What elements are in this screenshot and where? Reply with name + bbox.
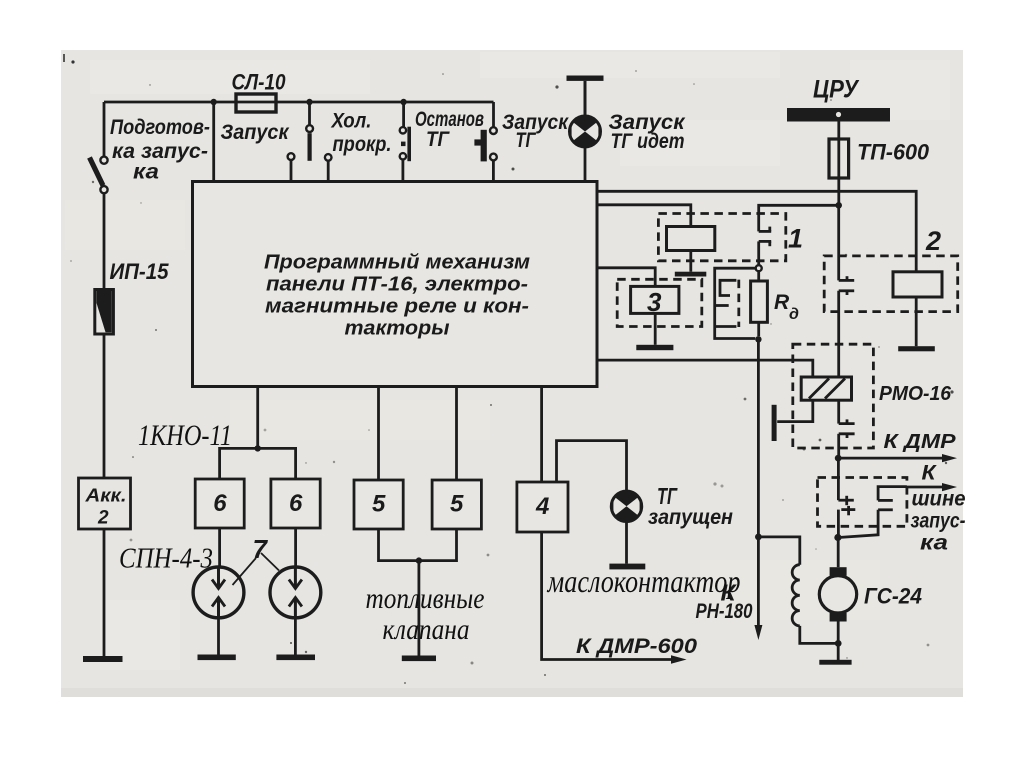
ground coil 2: [898, 346, 935, 351]
dashed box relay 2: [824, 256, 958, 312]
wire box to relay coil 3: [597, 268, 655, 287]
wire coil 2 to ground: [915, 297, 918, 346]
switch S1 Podgotovka zapuska: [90, 157, 108, 194]
relay coil K2: [893, 272, 942, 297]
svg-text:Запуск: Запуск: [221, 121, 290, 144]
wire box to relay 5 left: [377, 387, 380, 481]
svg-text:шине: шине: [912, 488, 966, 511]
relay coil K1: [667, 227, 715, 251]
wire box to RMO-16 coil: [597, 360, 813, 377]
valve 7 left: [193, 567, 244, 618]
wire left column: [103, 193, 106, 290]
wire to battery: [103, 334, 106, 478]
node top wire A: [211, 99, 217, 105]
node starter junction: [834, 534, 841, 541]
wire box to branch 2: [597, 191, 916, 272]
fuse IP-15: [95, 290, 114, 335]
wire lamp feed: [584, 81, 587, 117]
bus bar TsRU: [787, 108, 890, 122]
wire lamp to ground: [625, 522, 628, 564]
labels K shine zapuska: [911, 462, 966, 555]
dashed box relay 1: [658, 214, 785, 261]
wire box 4 to lamp TG: [557, 441, 627, 492]
svg-text:СЛ-10: СЛ-10: [232, 70, 287, 95]
svg-text:6: 6: [213, 490, 227, 517]
label TG zapushchen: [648, 483, 733, 529]
wire coil 1 to ground: [689, 251, 692, 272]
wire left drop to switch: [103, 102, 106, 157]
svg-text:К ДМР: К ДМР: [884, 430, 956, 453]
node top wire C: [400, 99, 406, 105]
node 5 ground junction: [416, 557, 422, 563]
wire down to ground: [417, 561, 420, 656]
label Zapusk TG: [502, 111, 569, 152]
box 6 right: [271, 479, 320, 528]
wire T to both 6 boxes: [220, 448, 296, 479]
svg-text:ТП-600: ТП-600: [857, 140, 930, 165]
wire to field winding: [758, 537, 799, 565]
wire coil 3 to ground: [654, 313, 657, 344]
wire box to valves 6: [256, 387, 259, 449]
node generator ground junction: [835, 640, 842, 647]
dashed box starter contactor: [818, 478, 907, 527]
wire winding to generator bottom: [800, 626, 838, 644]
node valves junction: [255, 445, 261, 451]
wire top supply bus: [104, 101, 494, 104]
program box PT-16: [193, 182, 598, 387]
ground relays 5: [402, 656, 436, 662]
svg-text:запус-: запус-: [911, 510, 966, 533]
main vertical line middle: [837, 291, 840, 377]
svg-text:клапана: клапана: [383, 613, 470, 646]
svg-text:К: К: [922, 462, 938, 485]
fuse SL-10: [236, 94, 276, 112]
ground valve right: [276, 655, 315, 661]
wire valve right to ground: [294, 618, 297, 656]
supply bar for lamp: [567, 76, 604, 81]
ground coil 1: [675, 272, 707, 277]
svg-text:2: 2: [925, 226, 941, 256]
node open circle: [756, 265, 762, 271]
label Podgotovka zapuska: [110, 115, 210, 184]
svg-text:прокр.: прокр.: [333, 133, 392, 156]
label Zapusk TG idet: [609, 111, 686, 153]
arrow K DMR: [838, 454, 957, 462]
wire 6 left to valve: [218, 528, 221, 567]
contact K2 on main line: [839, 276, 855, 295]
svg-text:СПН-4-3: СПН-4-3: [119, 543, 213, 575]
switch S4 Ostanov TG: [474, 102, 496, 182]
contact RMO on main line: [839, 400, 855, 458]
contact branch to starter bus: [838, 487, 907, 538]
label Ostanov TG: [415, 108, 484, 151]
svg-text:R: R: [774, 291, 790, 314]
contactor contact bracket near Rd: [715, 268, 756, 338]
box 4: [517, 482, 568, 532]
wire stub to program box: [212, 102, 215, 182]
svg-text:топливные: топливные: [366, 582, 485, 615]
svg-text:ИП-15: ИП-15: [110, 259, 170, 284]
svg-text:запущен: запущен: [648, 506, 733, 529]
fuse TP-600: [829, 139, 849, 178]
svg-text:1: 1: [788, 224, 803, 254]
arrow K DMR-600: [671, 655, 687, 663]
valve 7 right: [270, 567, 321, 618]
label Rd: [774, 291, 799, 323]
wire 6 right to valve: [294, 528, 297, 567]
box 6 left: [195, 479, 244, 528]
wire box to relay coil 1: [597, 205, 691, 227]
arrow K RN-180 down: [754, 339, 762, 640]
wire box to relay 4: [540, 387, 543, 483]
ground coil 3: [636, 345, 673, 350]
generator GS-24: [819, 538, 856, 644]
svg-text:Запуск: Запуск: [502, 111, 569, 134]
wire to generator ground: [837, 643, 840, 660]
wire bus to fuse: [837, 122, 840, 206]
svg-text:Программный механизм: Программный механизм: [264, 251, 530, 274]
ground valve left: [198, 655, 236, 661]
scanned paper area: [61, 50, 963, 697]
switch S2 Zapusk: [288, 102, 313, 182]
svg-text:5: 5: [450, 491, 464, 518]
resistor Rd: [751, 271, 768, 336]
node top wire B: [306, 99, 312, 105]
svg-text:ТГ: ТГ: [516, 129, 537, 152]
relay coil RMO-16: [801, 377, 851, 400]
wire main line down: [837, 458, 840, 500]
wire battery to ground: [103, 529, 106, 657]
svg-text:маслоконтактор: маслоконтактор: [547, 563, 741, 599]
label 7 with pointers: [233, 534, 280, 585]
box 5 right: [432, 480, 481, 529]
svg-text:ГС-24: ГС-24: [864, 584, 922, 609]
box 5 left: [354, 480, 403, 529]
node K DMR junction: [835, 455, 842, 462]
svg-text:РМО-16: РМО-16: [879, 383, 952, 405]
svg-text:5: 5: [372, 491, 386, 518]
inductor field winding: [792, 565, 800, 626]
ground battery: [83, 656, 123, 662]
contact K1: [759, 227, 772, 266]
svg-text:ка: ка: [133, 160, 159, 184]
svg-text:ТГ: ТГ: [426, 128, 450, 151]
wire contact 1 to main line: [759, 205, 839, 231]
svg-text:3: 3: [647, 287, 662, 317]
dashed box RMO-16: [793, 344, 874, 448]
lamp HL1 Zapusk TG idet: [570, 116, 601, 147]
lamp HL2 TG zapushchen: [611, 491, 641, 521]
switch S3 Khol prokr: [325, 102, 411, 182]
wire box to relay 5 right: [455, 387, 458, 481]
svg-text:РН-180: РН-180: [696, 600, 753, 623]
ground lamp TG: [609, 564, 645, 570]
ground generator: [819, 660, 851, 665]
svg-text:Акк.: Акк.: [84, 486, 126, 506]
labels K RN-180: [696, 580, 753, 624]
wire lamp to box: [584, 147, 587, 183]
svg-text:ка запус-: ка запус-: [112, 139, 208, 163]
svg-text:ТГ идет: ТГ идет: [611, 130, 685, 153]
wire box 4 to K DMR-600: [542, 532, 675, 660]
svg-text:ка: ка: [920, 532, 948, 555]
svg-text:6: 6: [289, 490, 303, 517]
label toplivnye klapana: [366, 582, 485, 646]
main vertical line upper: [837, 205, 840, 280]
svg-text:2: 2: [97, 508, 109, 529]
wire valve left to ground: [217, 618, 220, 656]
svg-text:ЦРУ: ЦРУ: [813, 76, 860, 104]
node under Rd: [755, 336, 761, 342]
label Khol prokr: [331, 110, 392, 157]
arrow K shine zapuska: [907, 483, 957, 491]
svg-text:д: д: [789, 306, 799, 323]
wire 5 boxes to common ground: [379, 529, 457, 561]
node main junction: [835, 202, 842, 209]
svg-text:4: 4: [535, 493, 549, 520]
RMO-16 aux contact left: [772, 400, 813, 441]
svg-text:такторы: такторы: [345, 317, 451, 340]
svg-text:магнитные реле и кон-: магнитные реле и кон-: [265, 295, 529, 318]
svg-text:Хол.: Хол.: [331, 110, 372, 133]
contact on main line in starter box: [838, 496, 855, 538]
node RN-180 branch: [755, 534, 762, 541]
svg-text:1КНО-11: 1КНО-11: [138, 419, 232, 452]
relay coil K3: [631, 286, 679, 317]
svg-text:Подготов-: Подготов-: [110, 115, 210, 139]
svg-text:К ДМР-600: К ДМР-600: [576, 635, 697, 658]
svg-text:панели ПТ-16, электро-: панели ПТ-16, электро-: [266, 273, 528, 296]
dashed box relay 3: [617, 279, 702, 326]
battery Akk 2: [79, 478, 131, 529]
